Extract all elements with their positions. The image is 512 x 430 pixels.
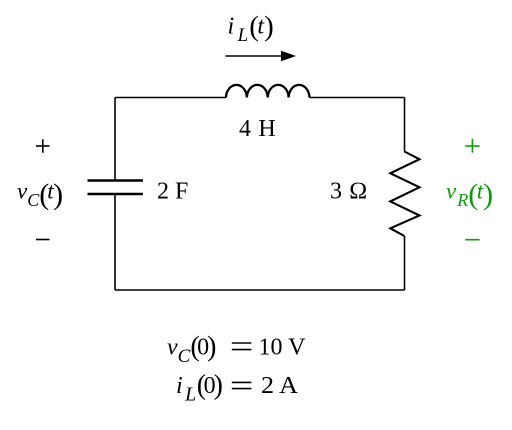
wire top-left segment xyxy=(115,97,226,99)
plus sign left of capacitor xyxy=(36,139,50,152)
svg-text:10 V: 10 V xyxy=(259,335,307,361)
resistor R1 3 ohm zigzag xyxy=(390,152,419,237)
wire right-lower segment xyxy=(404,236,406,290)
current arrow for iL xyxy=(226,51,297,61)
svg-text:3 Ω: 3 Ω xyxy=(330,179,368,205)
svg-text:2 A: 2 A xyxy=(261,373,299,399)
minus sign left of capacitor xyxy=(36,239,50,241)
equation iL(0) = 2 A xyxy=(176,370,299,405)
svg-text:4 H: 4 H xyxy=(239,116,276,142)
equation vC(0) = 10 V xyxy=(167,332,306,367)
wire top-right segment xyxy=(310,97,405,99)
wire right-upper segment xyxy=(404,98,406,152)
wire left-upper segment xyxy=(114,98,116,181)
svg-text:2 F: 2 F xyxy=(157,179,188,205)
inductor L1 4 H xyxy=(226,85,309,98)
capacitor C1 2 F plates xyxy=(88,181,144,195)
wire bottom segment xyxy=(115,289,405,291)
wire left-lower segment xyxy=(114,194,116,290)
minus sign right of resistor (green) xyxy=(465,239,479,241)
plus sign right of resistor (green) xyxy=(465,139,479,153)
